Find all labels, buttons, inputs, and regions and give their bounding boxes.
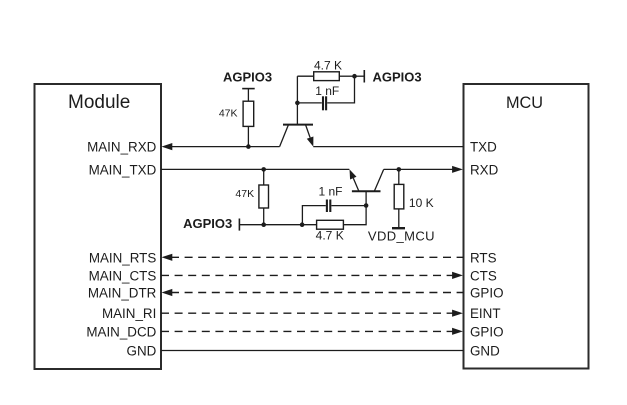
- wire base node to C1: [297, 102, 321, 104]
- wire R1 to MAIN_RXD line: [247, 126, 249, 146]
- svg-text:MAIN_RI: MAIN_RI: [102, 306, 156, 321]
- wire Q2 collector to MCU RXD: [384, 168, 454, 170]
- svg-text:AGPIO3: AGPIO3: [373, 69, 422, 84]
- transistor Q2 emitter arrow: [350, 169, 357, 179]
- transistor Q1 collector lead: [280, 125, 289, 147]
- wire TXD to MAIN_RXD right segment: [313, 146, 463, 148]
- wire AGPIO3 rail: [239, 224, 316, 226]
- junction dot R3/AGPIO3 rail: [261, 222, 266, 227]
- wire R5 bottom lead: [398, 209, 400, 227]
- svg-text:MAIN_DTR: MAIN_DTR: [88, 286, 157, 301]
- capacitor C2 1nF plates: [327, 200, 330, 213]
- capacitor C1 1nF plates: [323, 96, 326, 110]
- svg-text:EINT: EINT: [470, 306, 501, 321]
- transistor Q1 base lead: [296, 103, 298, 125]
- transistor Q2 emitter lead: [353, 178, 359, 191]
- svg-text:AGPIO3: AGPIO3: [223, 69, 272, 84]
- svg-text:4.7 K: 4.7 K: [316, 228, 344, 242]
- arrow into Module MAIN_RTS: [162, 254, 173, 261]
- junction dot RXD/R5: [397, 167, 402, 172]
- arrow into MCU GPIO: [452, 328, 463, 335]
- transistor Q2 collector lead: [374, 169, 383, 191]
- junction dot R2/C1 node: [352, 74, 357, 79]
- wire C1 to node: [327, 76, 354, 103]
- Module box U1: [35, 84, 162, 369]
- svg-text:MAIN_DCD: MAIN_DCD: [86, 324, 156, 339]
- svg-text:47K: 47K: [235, 188, 254, 200]
- svg-text:RTS: RTS: [470, 250, 497, 265]
- svg-text:10 K: 10 K: [409, 196, 434, 210]
- svg-text:AGPIO3: AGPIO3: [183, 216, 232, 231]
- svg-text:GPIO: GPIO: [470, 324, 503, 339]
- wire base node up: [296, 76, 298, 103]
- junction dot Q2 base node: [364, 203, 369, 208]
- terminal bar AGPIO3 top-left: [242, 88, 255, 90]
- junction dot MAIN_TXD/R3: [261, 167, 266, 172]
- svg-text:RXD: RXD: [470, 162, 499, 177]
- resistor R3 47K body: [259, 185, 269, 208]
- wire R2 to node: [339, 75, 354, 77]
- svg-text:MAIN_TXD: MAIN_TXD: [89, 162, 157, 177]
- wire to R2: [297, 75, 313, 77]
- terminal bar AGPIO3 bottom: [238, 219, 240, 231]
- wire C2 branch up: [302, 206, 325, 225]
- wire R5 top lead: [398, 169, 400, 184]
- dashed wire RTS: [171, 256, 464, 258]
- svg-text:TXD: TXD: [470, 140, 497, 155]
- svg-text:1 nF: 1 nF: [315, 84, 339, 98]
- wire R4 right lead: [343, 206, 366, 225]
- wire node to AGPIO3 terminal: [355, 75, 364, 77]
- arrow into MCU CTS: [452, 272, 463, 279]
- svg-text:MCU: MCU: [506, 94, 543, 112]
- terminal bar AGPIO3 top-right: [363, 70, 365, 83]
- svg-text:MAIN_CTS: MAIN_CTS: [89, 268, 157, 283]
- svg-text:CTS: CTS: [470, 268, 497, 283]
- svg-text:47K: 47K: [219, 107, 238, 119]
- resistor R5 10K body: [394, 184, 404, 209]
- arrow into MCU EINT: [452, 310, 463, 317]
- svg-text:1 nF: 1 nF: [318, 185, 342, 199]
- junction dot R1/MAIN_RXD: [246, 144, 251, 149]
- transistor Q1 emitter lead: [306, 125, 311, 138]
- svg-text:GPIO: GPIO: [470, 286, 503, 301]
- wire C2 to base node: [331, 205, 366, 207]
- wire R3 top lead: [263, 169, 265, 185]
- transistor Q1 base bar: [283, 124, 313, 126]
- dashed wire RI: [161, 312, 453, 314]
- resistor R4 4.7K body: [317, 220, 344, 229]
- resistor R1 47K body: [243, 101, 254, 126]
- svg-text:Module: Module: [68, 92, 130, 113]
- transistor Q2 base lead: [365, 191, 367, 205]
- arrow into Module MAIN_DTR: [162, 289, 173, 296]
- svg-text:VDD_MCU: VDD_MCU: [368, 228, 435, 243]
- svg-text:4.7 K: 4.7 K: [314, 58, 342, 72]
- wire GND: [161, 350, 464, 352]
- svg-text:MAIN_RXD: MAIN_RXD: [87, 140, 157, 155]
- transistor Q2 base bar: [352, 190, 381, 192]
- dashed wire CTS: [161, 274, 453, 276]
- svg-text:GND: GND: [127, 344, 157, 359]
- svg-text:GND: GND: [470, 344, 500, 359]
- MCU box U2: [464, 84, 589, 369]
- wire R3 bottom lead: [263, 208, 265, 225]
- terminal bar VDD_MCU: [392, 227, 405, 229]
- wire AGPIO3 terminal to R1: [247, 89, 249, 102]
- svg-text:MAIN_RTS: MAIN_RTS: [89, 250, 157, 265]
- arrow into Module MAIN_RXD: [162, 143, 173, 150]
- junction dot Q1 base node: [295, 101, 300, 106]
- dashed wire DTR: [171, 292, 464, 294]
- transistor Q1 emitter arrow: [307, 137, 314, 147]
- arrow into MCU RXD: [452, 166, 463, 173]
- junction dot rail/C2 branch: [300, 222, 305, 227]
- resistor R2 4.7K body: [314, 72, 340, 81]
- wire MAIN_TXD from Module: [161, 168, 349, 170]
- dashed wire DCD: [161, 330, 453, 332]
- wire TXD to MAIN_RXD left segment: [166, 146, 280, 148]
